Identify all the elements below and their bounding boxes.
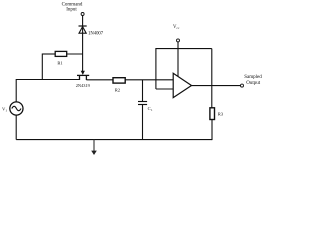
wire main right of JFET <box>86 79 113 81</box>
node Sampled Output terminal <box>241 75 263 87</box>
wire terminal to diode <box>82 16 84 33</box>
wire R1 branch down <box>41 54 43 80</box>
wire left vertical bottom <box>15 115 17 140</box>
capacitor C1 <box>138 80 153 140</box>
svg-text:1N4007: 1N4007 <box>88 31 104 36</box>
wire bottom <box>16 139 212 141</box>
transistor Q1 2N4319 <box>76 71 91 88</box>
diode D1 1N4007 <box>79 26 104 36</box>
wire diode to JFET gate <box>82 33 84 71</box>
ground <box>91 140 97 155</box>
source V1 <box>2 102 23 115</box>
svg-text:R3: R3 <box>218 112 224 117</box>
wire main left <box>16 79 79 81</box>
op-amp U1 <box>173 73 191 97</box>
svg-text:Output: Output <box>246 81 261 86</box>
resistor R3 <box>210 108 224 120</box>
wire R2 to op-amp input <box>125 79 173 81</box>
wire op-amp output <box>192 85 241 87</box>
node Command Input terminal <box>62 2 85 15</box>
resistor R2 <box>113 78 125 93</box>
svg-text:1: 1 <box>5 108 7 112</box>
svg-text:Input: Input <box>66 8 77 13</box>
wire R3 to bottom <box>211 120 213 141</box>
wire Vcc to op-amp <box>177 42 179 77</box>
resistor R1 <box>42 51 82 65</box>
svg-text:R1: R1 <box>57 60 63 65</box>
wire left vertical top <box>15 79 17 102</box>
node Vcc <box>173 25 180 42</box>
svg-text:Sampled: Sampled <box>244 75 262 80</box>
wire feedback loop <box>156 49 212 108</box>
svg-text:2N4319: 2N4319 <box>76 83 91 88</box>
svg-text:R2: R2 <box>115 87 121 92</box>
svg-text:Command: Command <box>62 2 83 7</box>
